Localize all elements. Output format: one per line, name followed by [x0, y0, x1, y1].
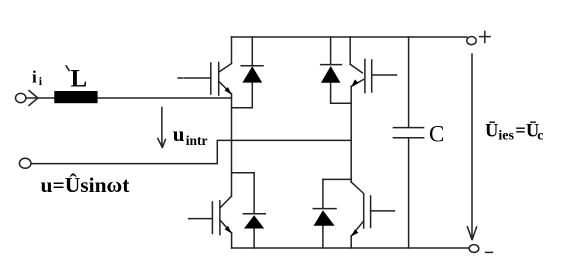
svg-text:=Ū: =Ū — [515, 120, 539, 141]
svg-text:L: L — [71, 65, 88, 92]
svg-text:C: C — [429, 121, 444, 146]
svg-text:u=Ûsinωt: u=Ûsinωt — [41, 173, 131, 197]
svg-text:u: u — [173, 122, 185, 146]
svg-text:Ū: Ū — [485, 120, 498, 141]
svg-text:intr: intr — [186, 133, 208, 148]
svg-text:i: i — [32, 68, 37, 87]
svg-text:ies: ies — [498, 128, 514, 143]
svg-text:i: i — [39, 74, 43, 88]
svg-text:c: c — [537, 128, 543, 143]
